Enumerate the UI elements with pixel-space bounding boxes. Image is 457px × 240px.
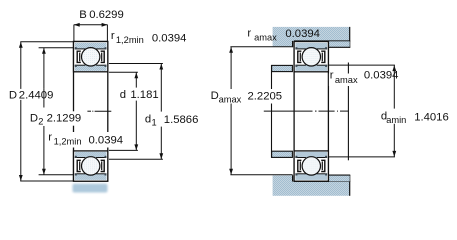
housing top band [273, 27, 350, 41]
svg-text:0.0394: 0.0394 [364, 69, 399, 81]
dim da [328, 65, 395, 157]
dim B [74, 25, 108, 42]
svg-text:amax: amax [219, 95, 242, 105]
svg-text:amin: amin [386, 115, 406, 125]
dim d1 [109, 64, 163, 160]
svg-text:r: r [111, 30, 115, 42]
shaft shoulder top [272, 65, 293, 71]
svg-text:r: r [48, 132, 52, 144]
housing bottom shoulder lip right [328, 175, 349, 181]
svg-text:1: 1 [152, 118, 157, 128]
svg-text:D: D [30, 112, 38, 124]
damin [381, 109, 408, 125]
svg-text:B: B [79, 9, 87, 21]
svg-text:2.1299: 2.1299 [47, 112, 82, 124]
svg-text:amax: amax [335, 75, 358, 85]
dim Da [230, 47, 292, 175]
shaft right face [347, 63, 349, 161]
bearing bottom section [74, 151, 108, 181]
shadow [73, 184, 108, 193]
svg-text:r: r [247, 28, 251, 40]
svg-text:0.6299: 0.6299 [89, 9, 124, 21]
d1 [145, 112, 200, 128]
svg-text:r: r [330, 70, 334, 82]
shaft left face [271, 65, 273, 158]
svg-text:2: 2 [38, 116, 43, 126]
housing bottom band [273, 182, 350, 196]
centerline [87, 110, 111, 112]
svg-text:1,2min: 1,2min [54, 137, 82, 147]
dim d [109, 72, 138, 150]
svg-text:d: d [145, 114, 151, 126]
svg-text:0.0394: 0.0394 [89, 134, 124, 146]
svg-text:amax: amax [254, 33, 277, 43]
dim D2 [39, 48, 74, 175]
r12min bottom [48, 132, 124, 148]
housing top shoulder lip right [328, 41, 349, 47]
bearing outline body [74, 42, 108, 182]
housing bottom shoulder lip left [273, 176, 293, 182]
svg-text:1.5866: 1.5866 [164, 114, 199, 126]
D [9, 89, 57, 102]
svg-text:0.0394: 0.0394 [152, 33, 187, 45]
svg-text:1.181: 1.181 [130, 89, 158, 101]
svg-text:0.0394: 0.0394 [285, 28, 320, 40]
svg-text:d: d [120, 89, 126, 101]
dim D [20, 42, 73, 181]
svg-text:1,2min: 1,2min [116, 35, 144, 45]
housing top shoulder lip left [273, 41, 293, 47]
d [119, 88, 158, 102]
bearing top section [74, 42, 108, 72]
svg-text:2.2205: 2.2205 [248, 91, 283, 103]
right bearing body [294, 42, 328, 182]
shaft shoulder bottom [272, 151, 293, 157]
svg-text:D: D [211, 90, 219, 102]
Damax [210, 89, 283, 105]
svg-text:D: D [9, 89, 17, 101]
centerline right [264, 110, 349, 112]
svg-text:2.4409: 2.4409 [19, 89, 54, 101]
svg-text:1.4016: 1.4016 [414, 111, 449, 123]
ramax mid [329, 70, 358, 86]
D2 [30, 111, 85, 126]
